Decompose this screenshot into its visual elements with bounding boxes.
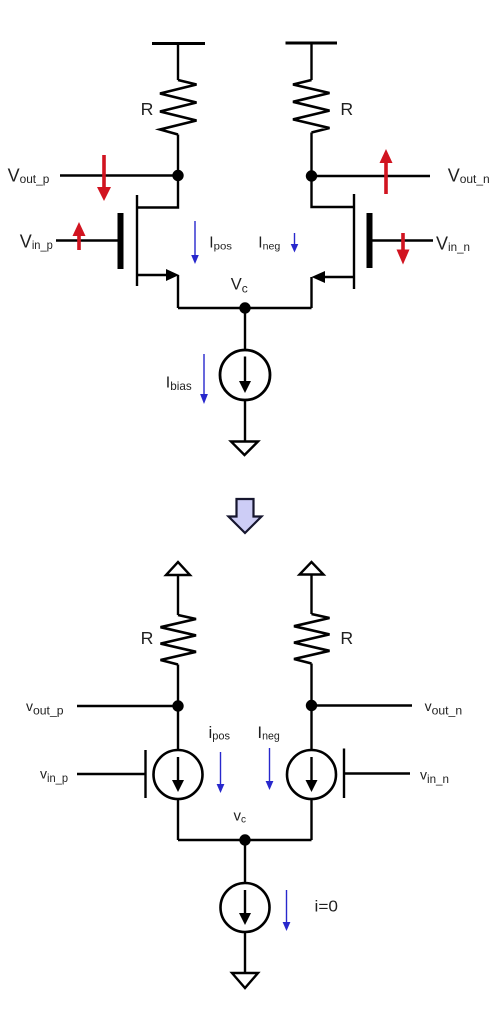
wire R4 to node vout_n [310, 664, 312, 706]
current arrow ipos blue [217, 752, 225, 793]
wire G2 to tail rail [310, 799, 312, 840]
svg-text:vout_n: vout_n [425, 698, 463, 717]
supply bar left (top circuit) [152, 44, 205, 81]
Q2 source wire with arrow [323, 276, 354, 278]
svg-text:vin_p: vin_p [40, 766, 68, 785]
wire vout_n lead [312, 704, 413, 706]
svg-text:Vout_n: Vout_n [448, 166, 490, 187]
Q2 channel line [353, 194, 355, 289]
wire node to source G2 [310, 706, 312, 751]
current arrow Ineg blue (short) [291, 233, 299, 253]
supply arrow left (small-signal circuit) [166, 562, 190, 615]
svg-text:Vin_n: Vin_n [436, 234, 470, 255]
svg-text:Vc: Vc [231, 276, 248, 296]
svg-text:vc: vc [234, 808, 247, 826]
block arrow (transition) [229, 499, 262, 533]
svg-text:R: R [141, 99, 154, 119]
wire current source to ground [244, 400, 246, 442]
wire node to source G1 [177, 706, 179, 750]
wire Vin_p gate lead [56, 239, 118, 241]
svg-text:ipos: ipos [209, 723, 231, 742]
wire vc to tail source [244, 840, 246, 883]
resistor R2 [293, 80, 330, 133]
transistor Q1 (NMOS left) [118, 176, 180, 309]
node vc junction [239, 834, 250, 845]
wire G1 to tail rail [177, 799, 179, 840]
svg-text:vin_n: vin_n [420, 767, 449, 786]
svg-text:R: R [141, 628, 154, 648]
svg-text:vout_p: vout_p [26, 698, 64, 717]
node vout_n junction [306, 700, 317, 711]
svg-text:i=0: i=0 [315, 898, 339, 915]
wire R1 to node Vout_p [177, 135, 179, 176]
svg-text:R: R [340, 628, 353, 648]
resistor R4 [294, 614, 330, 664]
resistor R1 [160, 80, 197, 135]
ground (small-signal circuit) [232, 973, 258, 988]
node Vc junction [239, 302, 250, 313]
current arrow red up at Vout_n [380, 149, 393, 194]
wire R2 to node Vout_n [310, 133, 312, 177]
current arrow i=0 blue [283, 890, 291, 931]
Q1 gate bar [118, 213, 124, 269]
wire tail rail (node Vc) [178, 307, 312, 309]
svg-text:R: R [340, 99, 353, 119]
resistor R3 [161, 615, 197, 665]
current arrow red up at Vin_p [73, 222, 86, 250]
wire Vin_n gate lead [373, 239, 434, 241]
wire vin_n gate lead [344, 772, 410, 774]
controlled source G1 (left) [77, 750, 203, 799]
svg-text:Vin_p: Vin_p [20, 232, 53, 253]
node Vout_n junction [306, 170, 317, 181]
supply arrow right (small-signal circuit) [300, 562, 324, 614]
wire Vout_n lead [312, 175, 431, 177]
wire Vc to current source [244, 308, 246, 350]
current source Ibias [220, 350, 270, 400]
svg-text:Ineg: Ineg [257, 723, 279, 742]
transistor Q2 (NMOS right) [312, 176, 373, 308]
svg-text:Vout_p: Vout_p [8, 165, 50, 185]
supply bar right (top circuit) [286, 43, 338, 80]
controlled source G2 (right) [287, 749, 410, 800]
current arrow red down at Vin_n [397, 233, 410, 265]
Q1 channel line [136, 195, 138, 286]
current arrow Ipos blue [191, 221, 199, 264]
G2 gate bar [343, 749, 345, 799]
current arrow Ineg blue (small-signal) [266, 748, 274, 790]
wire R3 to node vout_p [177, 665, 179, 707]
node Vout_p junction [172, 170, 183, 181]
current arrow Ibias blue [200, 354, 208, 404]
Q2 drain wire [312, 176, 355, 207]
Q1 source wire with arrow [137, 274, 168, 276]
Q2 gate bar [367, 213, 373, 268]
svg-text:Ineg: Ineg [258, 234, 280, 252]
wire vout_p lead [77, 705, 178, 707]
wire tail rail (node vc) [178, 839, 312, 841]
svg-text:Ipos: Ipos [209, 234, 232, 252]
svg-text:Ibias: Ibias [166, 374, 192, 393]
ground (top circuit) [231, 442, 258, 456]
G1 gate bar [144, 750, 146, 798]
wire Vout_p lead [60, 174, 178, 176]
node vout_p junction [172, 700, 183, 711]
Q1 drain wire [137, 176, 178, 208]
current arrow red down at Vout_p [97, 155, 111, 201]
wire vin_p gate lead [77, 773, 146, 775]
current source tail (i=0) [221, 883, 270, 932]
wire tail source to ground [244, 932, 246, 973]
